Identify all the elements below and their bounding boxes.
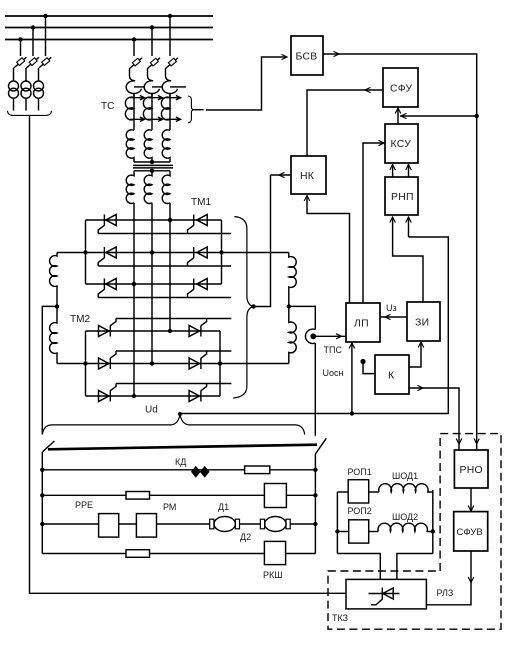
block LP (346, 303, 380, 342)
wire drop VT phase B (32, 28, 34, 57)
wire ROP2 to ShOD2 (369, 531, 379, 533)
arrowhead into RNO top right (474, 439, 479, 445)
wire BSV output to sync rail (323, 54, 477, 450)
right commutating winding lower (289, 306, 296, 363)
connector KD (bowtie) (191, 466, 210, 478)
thyristor VS13 (371, 588, 393, 605)
thyristor VS11 (99, 384, 117, 402)
voltage-transformer feeder group (left) (8, 16, 347, 593)
block K (375, 355, 409, 394)
svg-text:Uз: Uз (386, 303, 397, 313)
svg-text:РНП: РНП (391, 192, 414, 203)
wire ROP bottom left to TKZ (337, 554, 380, 580)
resistor R2 on rung 2 (126, 492, 150, 500)
svg-text:ТМ2: ТМ2 (70, 314, 90, 325)
wire load right rail (314, 454, 316, 554)
wire secondary phase C drop to TM2 row A (169, 203, 171, 331)
inverter bridge TM2 (57, 319, 289, 402)
arrowhead BSV output (334, 51, 340, 56)
switch-fuse QF1 phase A (14, 57, 26, 68)
block BSV (291, 36, 323, 75)
wire ZI to RNP (393, 217, 423, 302)
wire secondary phase A drop to TM2 row C (133, 203, 135, 396)
arrowhead TPS-LP (336, 334, 342, 339)
brace sync outputs (188, 96, 194, 123)
wire drop TC phase B (151, 28, 153, 57)
wire K left stub (363, 362, 375, 374)
wire load roof (thick) (48, 445, 317, 450)
wire bus phase A (top) (5, 15, 213, 17)
thyristor VS10 (189, 351, 207, 369)
left commutating winding lower (50, 306, 57, 363)
field winding section ROP/ShOD (335, 467, 435, 579)
node Ud brace peak dot (178, 412, 182, 416)
block KSU (385, 124, 418, 163)
wire drop TC phase A (133, 40, 135, 57)
node TM1 phase B dot (150, 250, 154, 254)
apparatus box on rung 2 (264, 484, 286, 508)
node primary star dot (150, 160, 154, 164)
wire primary star bar (134, 161, 170, 163)
svg-text:ТКЗ: ТКЗ (332, 613, 348, 623)
wire LP to NK (307, 196, 350, 304)
thyristor VS2 (188, 215, 208, 234)
node TM1 left rail dot (83, 250, 87, 254)
three-phase supply bus (5, 16, 213, 40)
svg-text:РНО: РНО (460, 465, 483, 476)
arrowhead into NK bottom (304, 196, 310, 202)
wire inside TKZ (369, 593, 400, 595)
wire bus phase C (bottom) (5, 39, 213, 41)
wire KSU to SFU (397, 107, 399, 124)
box TKZ thyristor unit (346, 579, 426, 609)
block RNO (454, 450, 488, 488)
wire K to RNO (409, 388, 459, 450)
wire TM1 left rail (85, 220, 87, 284)
svg-text:БСВ: БСВ (296, 52, 318, 63)
wire load rung 2 (42, 494, 315, 496)
switch-fuse QF2 phase B (148, 58, 161, 81)
wire TM1 gate row C (98, 297, 231, 299)
arrowhead ZI-RNP (390, 217, 396, 223)
wire RNP to KSU left (392, 164, 394, 177)
wire right tap to load (289, 306, 316, 435)
wire K to ZI (409, 342, 421, 367)
wire TM1 row C (86, 283, 222, 285)
wire bus phase B (middle) (5, 27, 213, 29)
thyristor VS5 (98, 279, 116, 298)
switch-fuse QF2 phase C (166, 58, 179, 81)
wire sync to BSV (206, 57, 287, 110)
transformer TC secondary winding phase A (126, 171, 134, 204)
left commutating winding upper (50, 253, 57, 307)
arrowhead RNP-KSU left (390, 165, 396, 171)
arrowhead K-ZI (418, 342, 424, 348)
apparatus ROP2 box (349, 520, 369, 543)
block SFUV (454, 512, 488, 551)
wire load left rail (41, 452, 43, 554)
wire LP to KSU (363, 143, 385, 303)
brace bridge outputs (tall) (233, 217, 253, 399)
arrowhead into KSU left (379, 140, 385, 145)
wire secondary phase B drop to TM2 row B (151, 203, 153, 364)
arrowhead SFU output left (365, 87, 371, 92)
current-winding circle phase A (126, 81, 145, 97)
current-winding circle phase B (144, 81, 163, 97)
node TM2 phase A dot (168, 329, 172, 333)
transformer TC secondary winding phase B (144, 171, 152, 204)
wire ROP1 to ShOD1 (369, 491, 379, 493)
arrowhead Ud-RNP (406, 217, 412, 223)
wire RNO to SFUV (470, 488, 472, 512)
transformer core (133, 165, 173, 168)
motor D2 (260, 517, 290, 532)
wire secondary star bar (134, 170, 170, 172)
voltage transformer TV phase A (9, 68, 19, 111)
arrowhead into BSV (282, 54, 288, 59)
node TM2 right rail dot (218, 361, 222, 365)
wire load rung 3 (42, 523, 315, 525)
transformer TC primary winding phase B (144, 130, 152, 162)
block RNP (385, 177, 418, 215)
arrowhead SFUV down (468, 577, 474, 583)
wire SFUV to TKZ thyristor (426, 551, 471, 605)
wire NK output to bridge brace (271, 174, 292, 176)
wire drop VT phase C (45, 16, 47, 56)
svg-text:ТС: ТС (101, 101, 114, 112)
arrowhead into RNO top left (456, 439, 462, 445)
wire TPS to LP (316, 335, 347, 337)
thyristor VS6 (188, 279, 208, 298)
svg-text:СФУ: СФУ (390, 84, 413, 95)
TC transformer feeder group (101, 16, 287, 130)
svg-text:ЗИ: ЗИ (415, 318, 429, 329)
block SFU (383, 68, 418, 107)
svg-text:ТПС: ТПС (324, 345, 343, 355)
node TM1 phase C dot (132, 282, 136, 286)
svg-text:СФУВ: СФУВ (457, 527, 483, 538)
arrowhead Ud-LP (349, 343, 355, 349)
wire TM2 row C (86, 395, 221, 397)
brace under voltage transformers (8, 111, 52, 116)
sync winding pair phase B (143, 93, 162, 130)
transformer TC secondary winding phase C (162, 171, 170, 204)
brace Ud (wide) (42, 414, 304, 434)
svg-text:ШОД1: ШОД1 (392, 471, 418, 481)
wire TM2 gate row A (116, 318, 231, 320)
svg-text:ШОД2: ШОД2 (392, 512, 418, 522)
wire TM2 left rail (85, 331, 87, 396)
thyristor VS8 (189, 319, 207, 337)
wire ROP bottom right to TKZ (397, 554, 433, 580)
wire RNP to KSU right (408, 164, 410, 177)
control blocks (291, 36, 440, 394)
wire load rung 1 (42, 469, 315, 471)
voltage transformer TV phase C (34, 68, 44, 111)
switch-fuse QF1 phase C (39, 57, 52, 68)
node right winding center tap (287, 304, 291, 308)
wire Ud sense to RNP input (408, 217, 410, 237)
apparatus PPE box (99, 514, 119, 538)
wire brace tip to NK (254, 175, 271, 307)
node ROP rail dots (335, 529, 435, 533)
apparatus RKSh box (264, 541, 285, 564)
wire ROP left rail (336, 492, 338, 554)
node K stub dot (360, 359, 365, 364)
svg-text:РМ: РМ (163, 502, 176, 512)
wire TM1 gate row A (98, 233, 231, 235)
wire TM2 gate row C (116, 383, 231, 385)
wire Ud sense line to RNP (180, 237, 448, 414)
apparatus ROP1 box (348, 480, 369, 503)
wire drop VT phase A (20, 40, 22, 57)
wire ROP right rail (432, 490, 434, 554)
wire left tap to load rail (42, 306, 57, 434)
node TPS dot (310, 333, 316, 339)
protection block TKZ (332, 579, 453, 623)
wire TM1 row B (57, 252, 289, 254)
switch blade load left (43, 441, 55, 452)
sync winding pair phase A (125, 93, 144, 130)
svg-text:ЛП: ЛП (354, 319, 369, 330)
wire drop TC phase C (169, 16, 171, 56)
switch-fuse QF2 phase A (130, 58, 143, 81)
svg-text:КД: КД (175, 457, 186, 467)
node load rail dots (40, 468, 317, 527)
wire ZI to LP (380, 316, 407, 318)
wire sync feedback to KSU line (400, 115, 477, 117)
svg-text:Ud: Ud (145, 405, 158, 416)
node TM1 phase A dot (168, 218, 172, 222)
node TM2 left rail dot (83, 361, 87, 365)
wire VT brace tail down to TKZ (30, 115, 347, 593)
arrowhead ZI-LP (385, 314, 391, 319)
svg-text:К: К (388, 371, 394, 382)
apparatus PM box (136, 514, 156, 538)
thyristor VS12 (189, 384, 207, 402)
voltage transformer TV phase B (21, 68, 31, 111)
node TM1 right rail dot (219, 250, 223, 254)
node brace tip dot (251, 304, 255, 308)
arrowhead KSU to SFU (395, 108, 401, 114)
sensor TPS loop (305, 329, 315, 343)
svg-text:Д1: Д1 (218, 502, 229, 512)
motor D1 (210, 517, 240, 532)
resistor R1 on rung 1 (245, 466, 270, 474)
wire load rung 4 (bottom) (42, 553, 315, 555)
arrowhead feedback left (401, 113, 407, 118)
load section (40, 438, 326, 580)
resistor R3 on rung 4 (126, 550, 150, 558)
wire TM2 gate row B (116, 350, 231, 352)
wire Ud to LP bottom (351, 342, 353, 414)
block NK (291, 156, 326, 194)
switch-fuse QF1 phase B (26, 57, 39, 68)
block ZI (407, 302, 440, 341)
svg-text:НК: НК (300, 171, 314, 182)
svg-text:РОП2: РОП2 (348, 506, 372, 516)
inductor ShOD1 (379, 484, 433, 492)
svg-text:Uосн: Uосн (323, 368, 344, 378)
transformer TC primary winding phase C (162, 130, 170, 162)
node sync rail dot (475, 114, 479, 118)
svg-text:КСУ: КСУ (391, 139, 412, 150)
wire TM1 right rail (221, 220, 223, 284)
sync winding pair phase C (161, 93, 180, 130)
dashed enclosure RNO/TKZ (328, 434, 501, 630)
node TM2 phase B dot (150, 361, 154, 365)
wire branch 2 left (337, 531, 348, 533)
inductor ShOD2 (378, 523, 433, 531)
node bus tap dots group 2 (132, 14, 172, 42)
rectifier bridge TM1 (57, 215, 289, 298)
thyristor VS4 (188, 247, 208, 266)
node bus tap dots group 1 (18, 14, 47, 42)
wire branch 1 left (337, 491, 348, 493)
thyristor VS1 (98, 215, 116, 234)
arrowhead K output right (418, 385, 424, 390)
thyristor VS3 (98, 247, 116, 266)
wire TM2 row A (86, 330, 221, 332)
arrowhead RNO-SFUV (468, 506, 474, 512)
current-winding circle phase C (162, 81, 186, 97)
svg-text:РОП1: РОП1 (348, 467, 372, 477)
wire TM1 gate row B (98, 265, 231, 267)
svg-text:РЛЗ: РЛЗ (437, 588, 454, 598)
thyristor VS7 (99, 319, 117, 337)
node secondary star dot (150, 169, 154, 173)
wire TM2 right rail (219, 331, 221, 396)
switch blade load right (315, 438, 326, 454)
arrowhead NK output left (279, 172, 285, 177)
right commutating winding upper (289, 253, 296, 307)
node left winding center tap (55, 304, 59, 308)
svg-text:РКШ: РКШ (263, 570, 283, 580)
svg-text:ТМ1: ТМ1 (191, 197, 211, 208)
node Ud sense dot (350, 411, 354, 415)
svg-text:РРЕ: РРЕ (75, 500, 93, 510)
arrowhead RNP-KSU right (406, 165, 412, 171)
wire TM2 row B (57, 363, 289, 365)
thyristor VS9 (99, 351, 117, 369)
svg-text:Д2: Д2 (240, 532, 251, 542)
wire TM1 row A (86, 219, 222, 221)
wire brace tick (194, 109, 203, 111)
transformer TC primary winding phase A (126, 130, 134, 162)
node TM2 phase C dot (132, 394, 136, 398)
wire SFU to NK (307, 90, 383, 156)
